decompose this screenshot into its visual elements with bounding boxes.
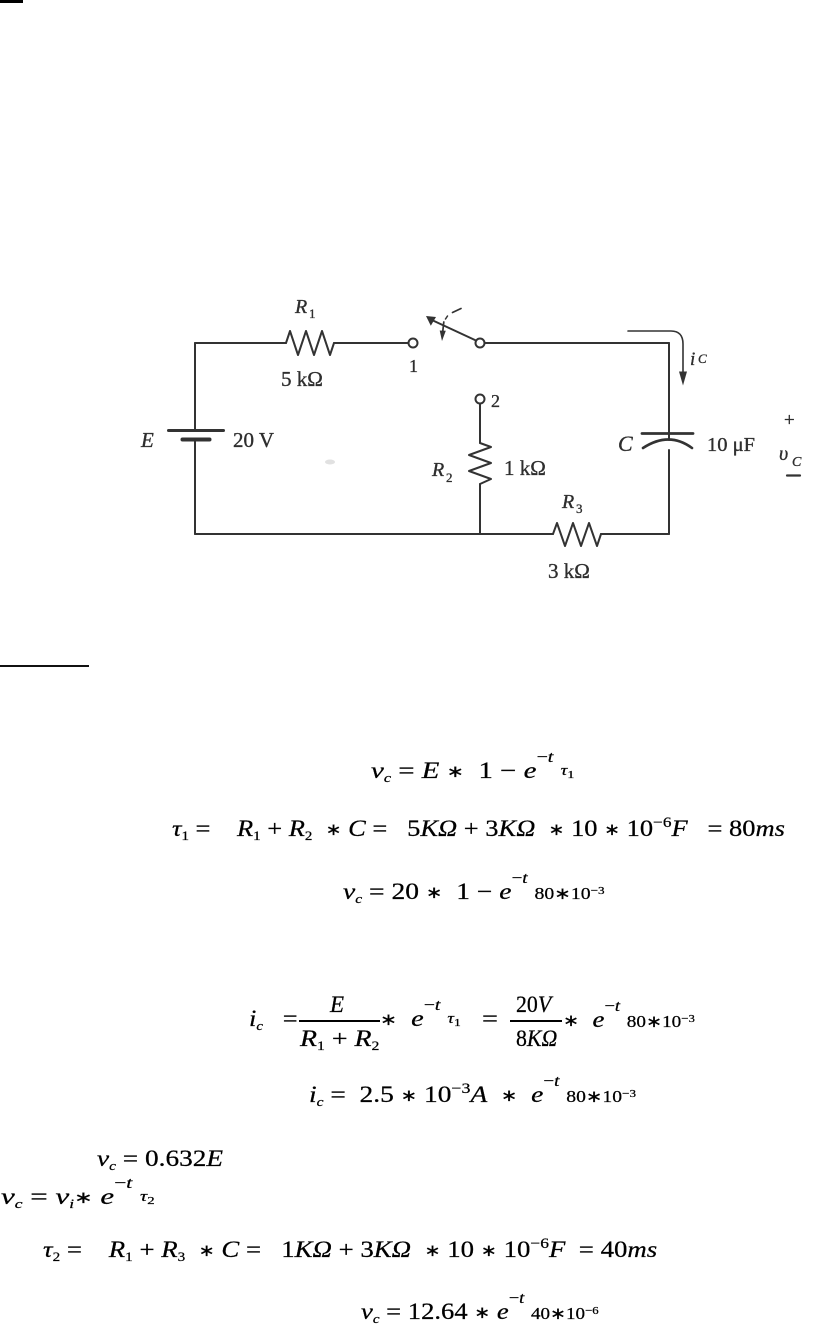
svg-text:1: 1 [409,356,418,376]
equation 6 [97,1147,223,1170]
fraction 1 bar [299,1020,380,1022]
switch arm arrowhead [426,316,436,326]
equation 5 [309,1083,636,1106]
wire: node 2 to R2 [479,404,481,444]
middle run [380,1007,498,1030]
wire: R1 to node 1 [334,342,409,344]
svg-text:3 kΩ: 3 kΩ [548,559,590,583]
equation 3 [343,880,605,903]
switch motion dashed arc [453,309,462,313]
equation 9 [361,1300,599,1323]
svg-text:R: R [294,296,307,318]
node 1 terminal circle [409,339,418,348]
battery E: long plate [169,429,224,432]
resistor R3 zigzag [553,523,601,546]
equation 4 : i_c = E/(R1+R2) * e^-t t1 = 20V/8KOhm * e^-t 80*10^-3 [249,1007,298,1030]
capacitor C bottom curved plate [643,440,692,449]
wire: R2 to bottom rail [479,484,481,534]
svg-text:i: i [690,349,695,370]
node 2 terminal circle [476,395,485,404]
fraction 2 numerator [516,993,551,1016]
resistor R2 zigzag [469,443,491,484]
svg-text:E: E [140,428,154,452]
equation 2 [172,817,785,840]
capacitor C top plate [642,432,693,435]
label - polarity [787,474,800,476]
svg-text:1: 1 [309,306,316,321]
circuit schematic SVG [0,0,821,650]
equation 7 [1,1185,155,1208]
svg-text:R: R [561,491,574,513]
svg-text:C: C [698,351,707,366]
svg-text:1 kΩ: 1 kΩ [504,456,546,480]
svg-text:υ: υ [779,443,788,465]
iC indicator hook [628,331,683,372]
wire: bottom rail left of R3 [195,533,553,535]
svg-text:+: + [784,410,795,431]
wire: left vertical top segment (E top to battery) [194,343,196,430]
left rule line [0,665,89,667]
top-left black bar [0,0,23,3]
wire: capacitor to bottom rail [668,450,670,534]
equation 8 [43,1238,657,1261]
resistor R1 zigzag [286,331,334,355]
tail run [563,1008,695,1031]
fraction 1 numerator [330,993,344,1016]
switch arm blade [434,321,476,341]
svg-text:2: 2 [446,470,453,485]
svg-text:20 V: 20 V [233,428,274,452]
faint scan smudge [325,460,335,465]
svg-text:3: 3 [576,501,583,516]
svg-text:2: 2 [491,391,500,411]
iC arrowhead [679,372,687,386]
switch pivot terminal circle [476,339,485,348]
equation 1 [371,759,574,782]
battery E: short plate [183,438,210,442]
svg-text:C: C [792,455,802,470]
svg-text:5 kΩ: 5 kΩ [281,367,323,391]
svg-text:C: C [618,431,633,456]
wire: right vertical (top corner to capacitor) [668,343,670,440]
switch motion arrowhead [440,331,446,342]
wire: switch to top-right corner [485,342,669,344]
svg-text:R: R [431,459,444,481]
fraction 1 denominator [300,1027,379,1050]
fraction 2 denominator [516,1027,557,1050]
svg-text:10 μF: 10 μF [707,434,755,456]
wire: top rail from left corner to R1 [195,342,286,344]
wire: left vertical bottom segment (battery to bottom rail) [194,440,196,534]
wire: bottom rail right of R3 [601,533,669,535]
fraction 2 bar [510,1020,562,1022]
